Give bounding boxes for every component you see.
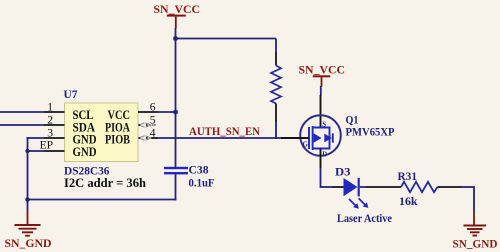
- component U7 body DS28C36: [65, 103, 139, 162]
- power port SN_GND (bottom right): [453, 210, 498, 250]
- power port SN_VCC (top): [154, 2, 201, 29]
- svg-text:0.1uF: 0.1uF: [189, 176, 215, 190]
- capacitor C38 plate 1: [164, 167, 188, 169]
- wire AUTH_SN_EN: [158, 137, 281, 139]
- wire: drain down: [320, 168, 322, 187]
- svg-text:SN_GND: SN_GND: [453, 236, 498, 250]
- pin 1 lead: [44, 111, 65, 113]
- capacitor C38 plate 2: [164, 172, 188, 174]
- pin 3 lead: [44, 137, 65, 139]
- junction (top rail split): [173, 36, 178, 41]
- power port SN_VCC (right): [299, 62, 346, 86]
- pin EP lead: [44, 150, 65, 152]
- svg-text:G: G: [303, 142, 309, 149]
- pin: resistor top lead: [275, 52, 277, 66]
- power port SN_GND (bottom left): [5, 200, 52, 251]
- wire: main vertical SN_VCC rail: [175, 28, 177, 167]
- wire: R31 to right ground: [462, 186, 474, 188]
- wire: LED to R31: [366, 186, 401, 188]
- wire to pin 1 (SCL): [0, 111, 44, 113]
- svg-text:SN_GND: SN_GND: [5, 236, 52, 250]
- svg-text:S: S: [322, 121, 326, 128]
- pin 4 lead (PIOB): [151, 137, 158, 139]
- pin 4 bidirectional glyph: [139, 136, 151, 140]
- wire: resistor branch vertical (lower): [275, 122, 277, 139]
- wire pin6 to VCC rail: [158, 111, 176, 113]
- pin 5 bidirectional glyph: [139, 123, 151, 127]
- svg-text:AUTH_SN_EN: AUTH_SN_EN: [189, 126, 261, 138]
- pin: Q1 drain lead: [320, 149, 322, 169]
- svg-text:PIOB: PIOB: [105, 133, 130, 147]
- junction (pin6 on VCC rail): [173, 110, 178, 115]
- junction (ground rail / bus): [25, 197, 30, 202]
- wire to pin 2 (SDA): [0, 124, 44, 126]
- svg-text:R31: R31: [398, 169, 418, 183]
- LED D3: [344, 178, 369, 209]
- pin 2 lead: [44, 124, 65, 126]
- svg-text:U7: U7: [64, 87, 78, 101]
- emission arrow 1: [349, 199, 356, 206]
- wire: top horizontal to resistor branch: [176, 38, 277, 40]
- wire: right ground drop: [473, 186, 475, 210]
- pin: resistor bottom lead: [275, 104, 277, 123]
- wire: SN_VCC to Q1 source: [320, 86, 322, 96]
- wire: left ground rail vertical: [27, 137, 29, 199]
- wire: capacitor bottom stem: [175, 174, 177, 200]
- svg-text:I2C addr = 36h: I2C addr = 36h: [64, 175, 147, 190]
- svg-text:EP: EP: [40, 140, 53, 152]
- svg-text:PMV65XP: PMV65XP: [346, 125, 395, 139]
- pin 5 lead (PIOA, unconnected): [152, 124, 156, 126]
- wire: resistor branch vertical (upper): [275, 39, 277, 53]
- transistor Q1 PMV65XP (P-MOSFET): [300, 115, 341, 158]
- pin: D3 cathode lead: [360, 186, 366, 188]
- emission arrow 2: [359, 198, 365, 205]
- wire: drain to LED: [320, 186, 332, 188]
- pin: R31 right lead: [438, 186, 463, 188]
- svg-text:C38: C38: [189, 163, 209, 177]
- svg-text:SN_VCC: SN_VCC: [154, 2, 201, 16]
- svg-text:Laser Active: Laser Active: [337, 211, 393, 225]
- resistor (pull-up, vertical): [271, 66, 281, 104]
- svg-text:SN_VCC: SN_VCC: [299, 62, 346, 76]
- wire EP to ground rail: [28, 150, 45, 152]
- pin: Q1 source lead: [320, 95, 322, 127]
- wire pin3 to ground rail: [27, 137, 44, 139]
- svg-text:D: D: [322, 152, 327, 159]
- wire: bottom ground bus: [27, 199, 177, 201]
- junction (EP joins ground rail): [25, 149, 29, 153]
- svg-text:16k: 16k: [399, 194, 418, 208]
- resistor R31: [401, 182, 438, 192]
- pin: Q1 gate lead: [281, 137, 309, 139]
- svg-text:GND: GND: [73, 145, 97, 159]
- pin 6 lead: [138, 111, 158, 113]
- svg-text:D3: D3: [335, 165, 351, 179]
- pin: D3 anode lead: [332, 186, 344, 188]
